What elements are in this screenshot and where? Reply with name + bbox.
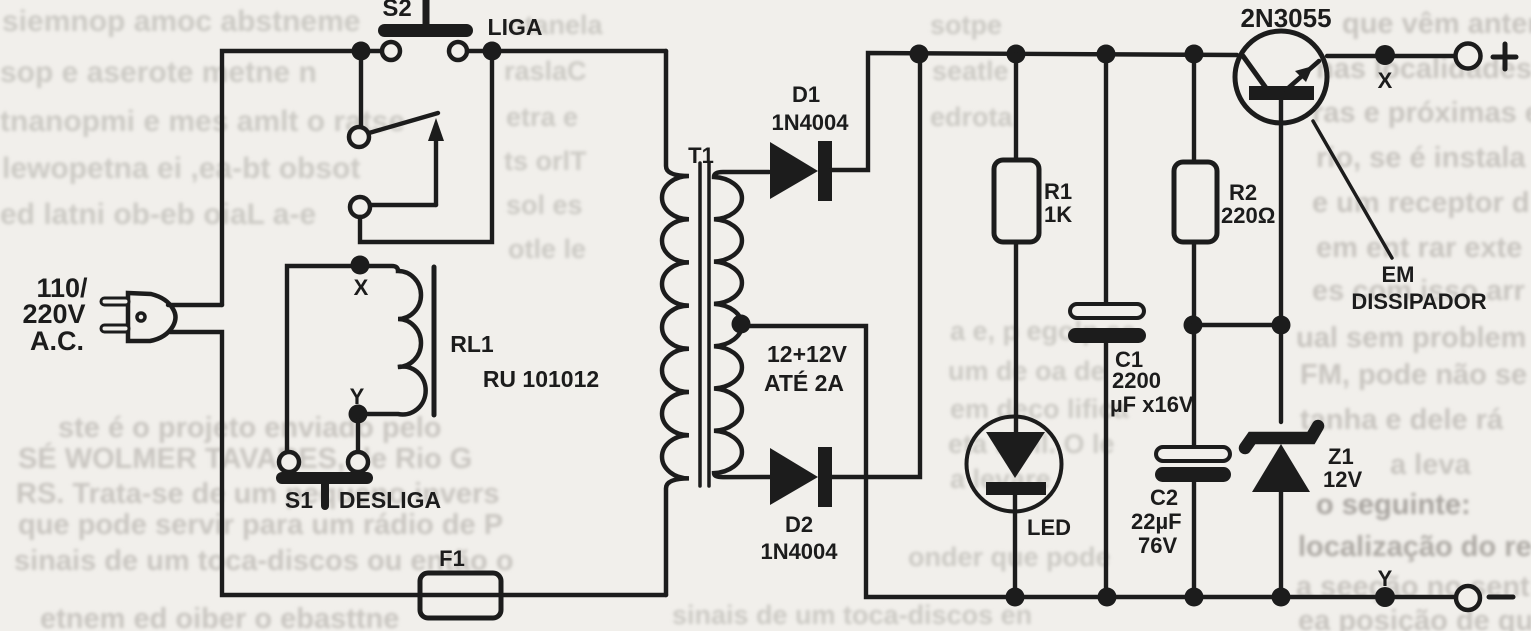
wire: rail from S2 right contact to transformer primary drop [467,49,666,53]
svg-text:R2: R2 [1229,180,1257,205]
svg-text:12V: 12V [1323,467,1362,492]
wire: top-left rail from left trunk to S2 left contact [222,51,381,305]
svg-text:edrota: edrota [930,102,1014,132]
wire: Y node down to S1 right contact [356,420,360,452]
svg-text:localização do rec: localização do rec [1298,531,1531,563]
label EM DISSIPADOR [1351,262,1486,314]
svg-text:a leva: a leva [1390,449,1471,481]
svg-text:X: X [354,275,369,300]
svg-text:Y: Y [1378,566,1393,591]
resistor R2 220 ohm [1174,54,1217,447]
svg-text:1K: 1K [1044,202,1072,227]
label R2 220ohm [1221,180,1275,228]
svg-text:Z1: Z1 [1328,444,1354,469]
capacitor C1 2200uF [1068,54,1146,597]
node: C2 junction on negative rail [1185,588,1204,607]
relay RL1 contact arm (moving contact with arrow) [349,60,444,217]
label R1 1K [1044,179,1072,227]
wire: D2 cathode up to positive rail [832,55,920,477]
wire: D1 cathode up to positive rail [831,53,1237,170]
wire: plug to left trunk (top prong) [168,303,222,307]
wire: X node to S1 left contact [287,266,360,452]
svg-text:DISSIPADOR: DISSIPADOR [1351,289,1486,314]
wire: relay contact loop back up to S2 right junction [360,51,492,242]
zener diode Z1 12V [1245,426,1318,597]
svg-text:etnem ed oiber o ebasttne: etnem ed oiber o ebasttne [40,603,399,631]
label 110/220V A.C. [22,273,88,356]
svg-text:ATÉ 2A: ATÉ 2A [764,369,844,396]
svg-text:1N4004: 1N4004 [771,110,849,135]
svg-text:ts orlT: ts orlT [504,146,587,176]
svg-text:T1: T1 [688,143,714,168]
svg-text:seatle: seatle [932,56,1009,86]
svg-text:que vêm antena: que vêm antena [1342,8,1531,40]
svg-text:µF x16V: µF x16V [1110,392,1194,417]
svg-text:D2: D2 [785,512,813,537]
resistor R1 1K [994,54,1039,433]
svg-text:LED: LED [1027,515,1071,540]
node: C1 junction on negative rail [1098,588,1117,607]
svg-text:etra e: etra e [506,102,578,132]
wire: plug to left trunk (bottom prong) and down to bottom rail [170,332,666,595]
svg-text:R1: R1 [1044,179,1072,204]
svg-text:F1: F1 [439,546,465,571]
node X (relay coil top) [351,256,370,275]
svg-text:siemnop amoc abstneme: siemnop amoc abstneme [2,5,360,38]
transformer T1 secondary winding [714,172,770,477]
label C2 22uF 16V [1131,485,1182,558]
svg-text:em ent rar exte: em ent rar exte [1316,232,1522,264]
svg-text:S1: S1 [285,487,313,513]
svg-text:ras e próximas e: ras e próximas e [1312,97,1531,129]
node X (output sense, positive rail) [1375,45,1395,65]
svg-text:2200: 2200 [1112,368,1161,393]
transistor Q1 2N3055 [1235,31,1327,422]
svg-text:12+12V: 12+12V [767,341,848,367]
svg-text:2N3055: 2N3055 [1240,3,1331,33]
svg-text:LIGA: LIGA [488,14,543,40]
svg-text:tnanopmi e mes amlt o ratse: tnanopmi e mes amlt o ratse [0,105,405,138]
svg-text:C2: C2 [1150,485,1178,510]
transformer T1 primary winding [662,51,689,595]
terminal: + output [1456,44,1517,70]
node: LED junction on negative rail [1006,588,1025,607]
svg-text:ste é o projeto enviado pelo: ste é o projeto enviado pelo [58,412,442,444]
svg-text:rio, se é instala: rio, se é instala [1316,142,1526,174]
svg-text:SÉ WOLMER TAVARES, de Rio G: SÉ WOLMER TAVARES, de Rio G [18,441,472,475]
label Z1 12V [1323,444,1362,492]
svg-text:1N4004: 1N4004 [760,539,838,564]
svg-text:X: X [1378,68,1393,93]
svg-text:sop e aserote metne n: sop e aserote metne n [0,56,317,89]
svg-text:ed latni ob-eb oiaL a-e: ed latni ob-eb oiaL a-e [0,198,316,231]
transformer T1 core [700,163,709,486]
svg-text:220Ω: 220Ω [1221,203,1275,228]
svg-text:76V: 76V [1138,533,1177,558]
node: C1 junction on positive rail [1097,45,1116,64]
svg-text:em deco lifica: em deco lifica [950,394,1130,424]
svg-text:tanha e dele rá: tanha e dele rá [1300,404,1504,436]
svg-text:sinais de um toca-discos en: sinais de um toca-discos en [672,600,1032,630]
capacitor C2 22uF [1155,447,1231,597]
svg-text:FM, pode não se: FM, pode não se [1300,359,1527,391]
svg-text:onder que pode: onder que pode [908,542,1111,572]
wire: center tap down to negative rail [741,326,1456,597]
svg-text:um de oa de: um de oa de [948,356,1106,386]
svg-text:raslaC: raslaC [504,56,587,86]
svg-text:otle le: otle le [508,234,586,264]
node Y (relay coil bottom) [349,405,368,424]
svg-text:S2: S2 [382,0,411,22]
svg-text:ea posição de qu: ea posição de qu [1298,605,1531,631]
label C1 2200uF x16V [1110,347,1194,417]
node Y (output sense, negative rail) [1375,587,1395,607]
node: junction dot right of S2 [483,42,502,61]
svg-text:D1: D1 [792,82,820,107]
svg-text:ual sem problem: ual sem problem [1296,322,1526,354]
svg-text:que pode servir para um rádio: que pode servir para um rádio de P [18,509,503,541]
switch S2 pushbutton (contacts, bar, stem) [378,0,473,60]
svg-text:DESLIGA: DESLIGA [339,487,441,513]
AC plug P1 [101,293,176,341]
node: transformer center tap [732,315,751,334]
relay coil RL1 [366,266,434,415]
svg-text:A.C.: A.C. [30,326,84,356]
switch S1 pushbutton (contacts, bar, stem) [276,452,373,506]
node: R2 / C2 / base junction [1184,316,1203,335]
svg-text:RU 101012: RU 101012 [483,366,599,392]
node: junction dot at S2 / relay-arm branch [352,42,371,61]
node: R1 junction on positive rail [1007,45,1026,64]
node: Z1 junction on negative rail [1272,588,1291,607]
diode D1 1N4004 [770,141,832,201]
svg-text:220V: 220V [22,299,85,329]
svg-text:22µF: 22µF [1131,509,1182,534]
svg-text:e um receptor d: e um receptor d [1312,187,1530,219]
node: R2 junction on positive rail [1185,45,1204,64]
svg-text:RL1: RL1 [450,331,494,357]
callout line: EM DISSIPADOR pointer [1313,121,1392,258]
diode D2 1N4004 [770,447,832,507]
node: D2 branch junction on positive rail [910,45,929,64]
wire: junction to transistor base column [1193,323,1281,327]
LED [967,417,1062,598]
svg-text:sol es: sol es [506,190,583,220]
svg-text:Y: Y [350,384,365,409]
svg-text:EM: EM [1382,262,1415,287]
svg-text:sotpe: sotpe [930,10,1002,40]
fuse F1 [420,573,501,618]
svg-text:o seguinte:: o seguinte: [1316,489,1471,521]
node: base / zener junction [1272,316,1291,335]
svg-text:lewopetna ei ,ea-bt obsot: lewopetna ei ,ea-bt obsot [2,152,360,185]
terminal: - output [1456,586,1513,610]
